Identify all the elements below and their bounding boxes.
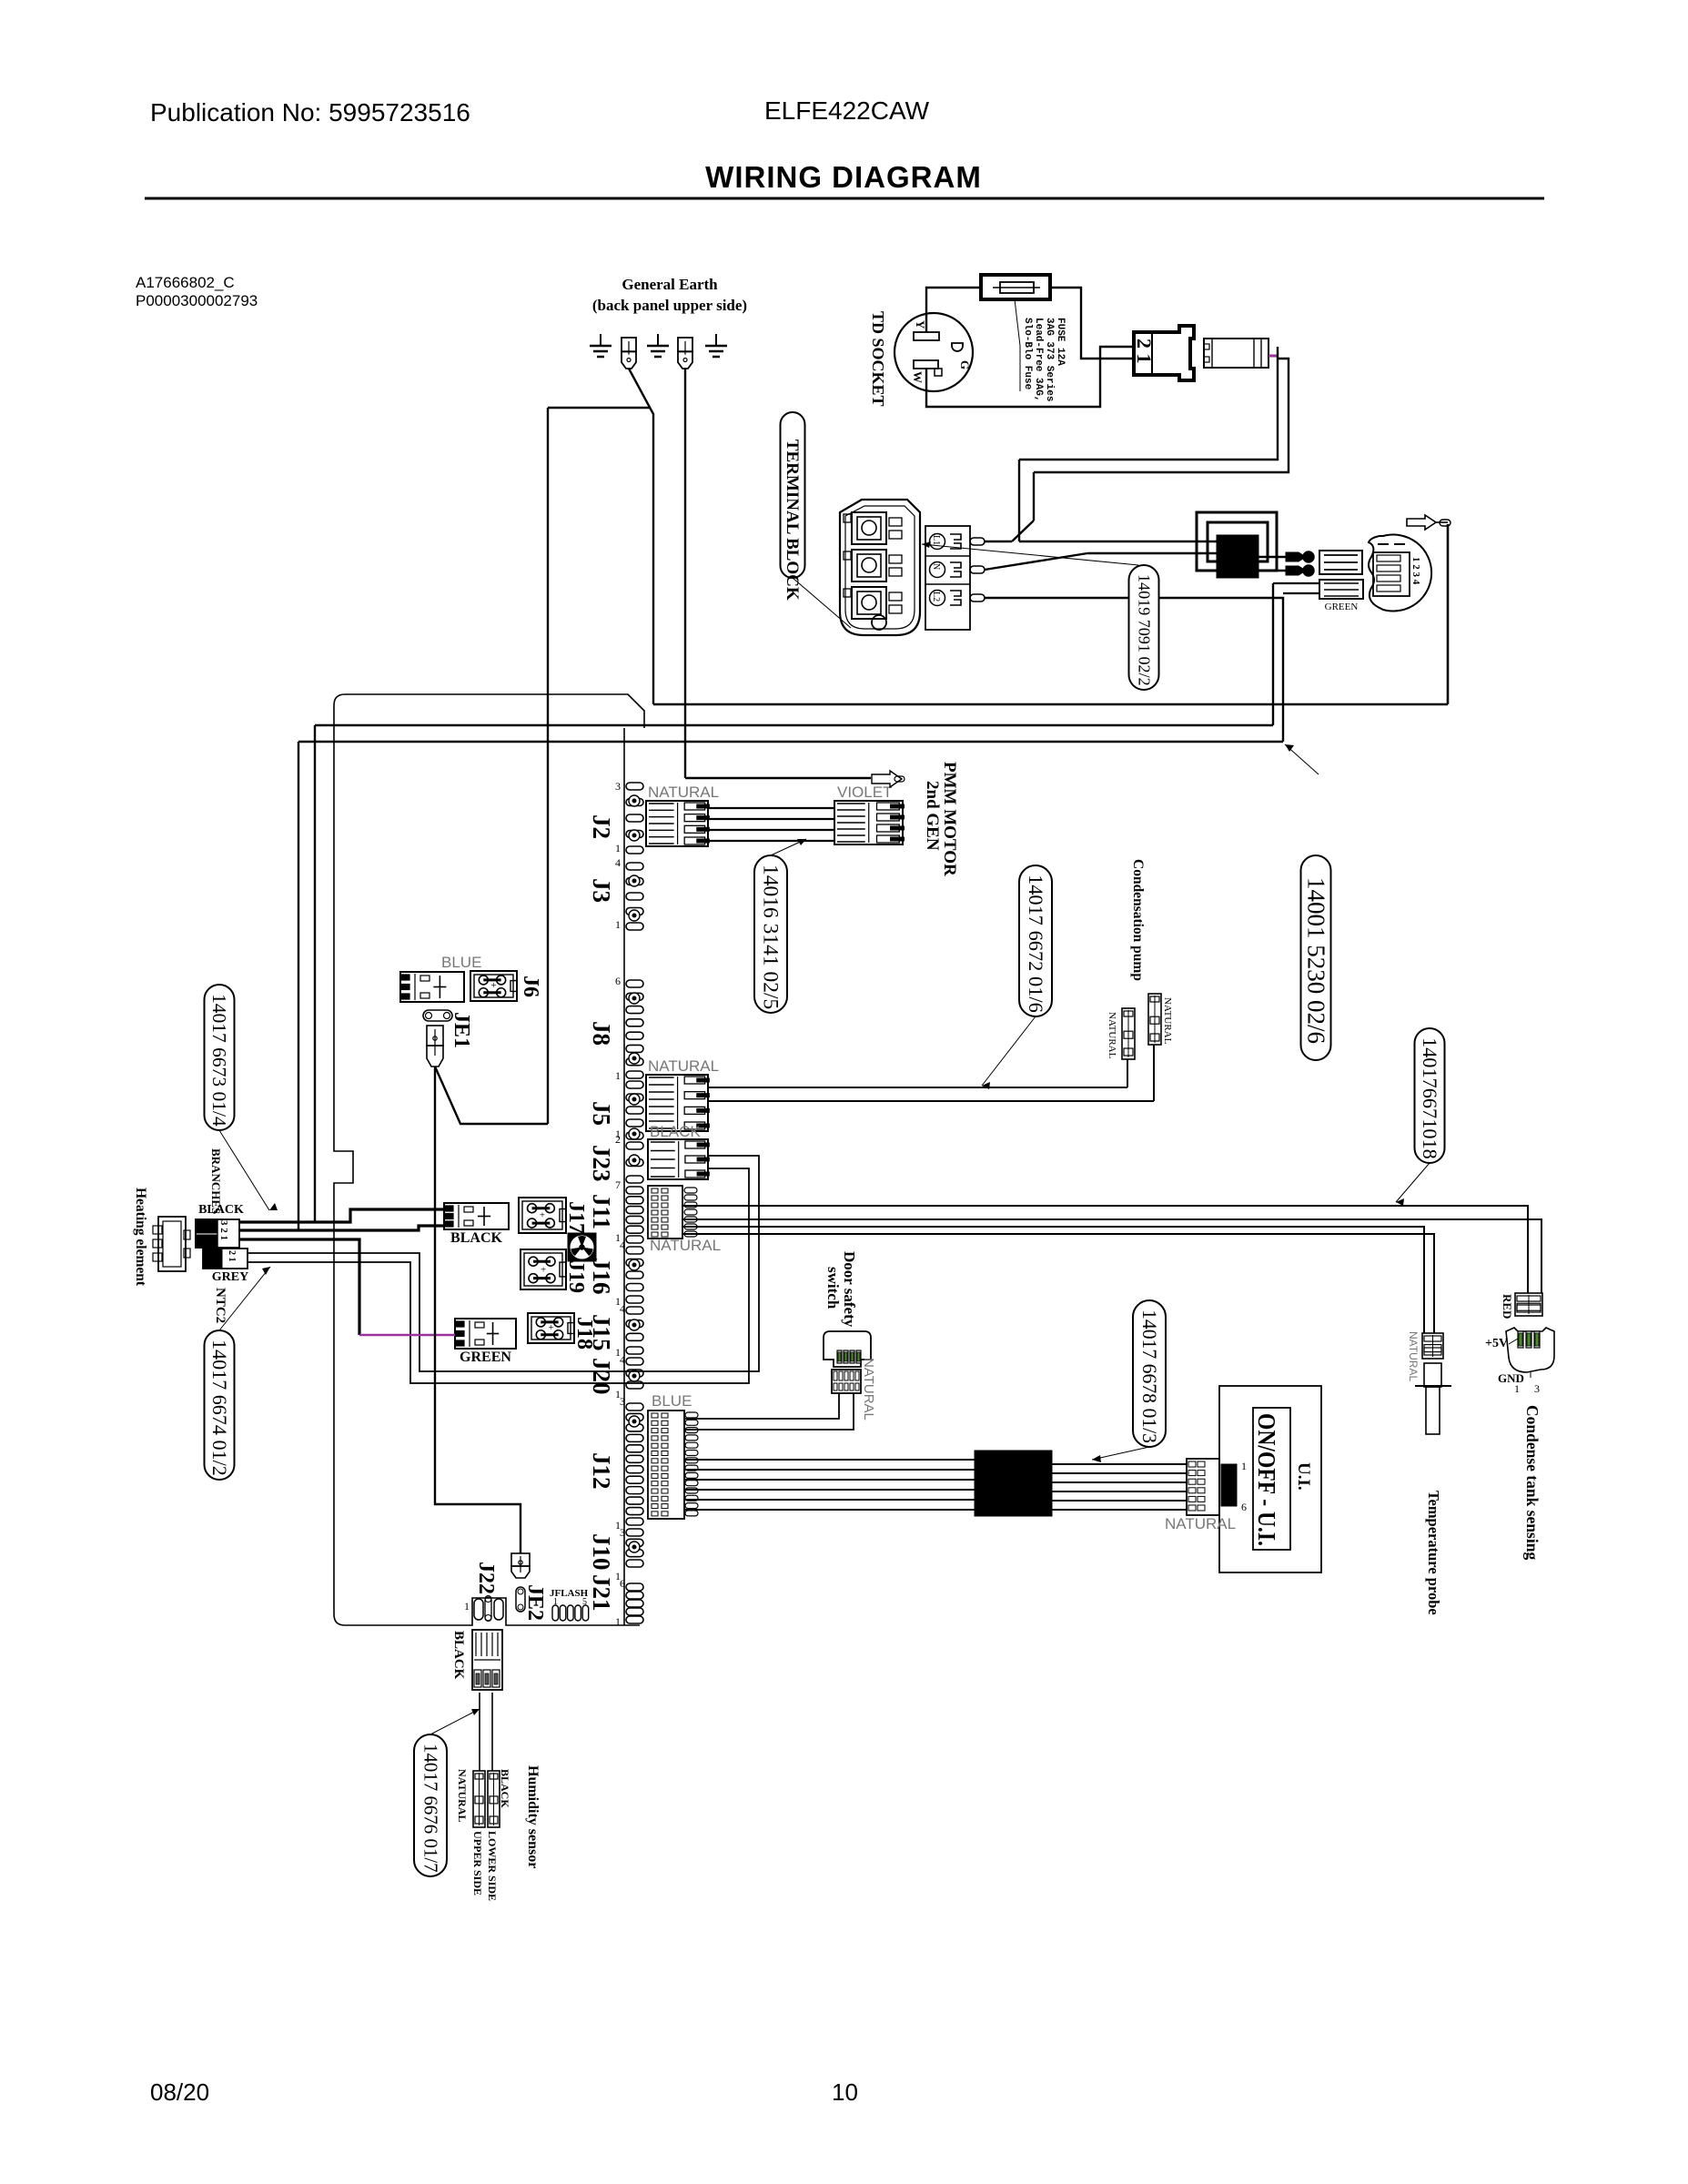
svg-text:BRANCHES: BRANCHES (209, 1148, 223, 1214)
svg-text:1: 1 (464, 1600, 470, 1613)
svg-text:+: + (548, 1322, 553, 1333)
svg-text:J3: J3 (588, 878, 615, 903)
svg-text:J20: J20 (588, 1358, 615, 1395)
svg-text:3AG 373 Series: 3AG 373 Series (1044, 318, 1055, 401)
svg-text:switch: switch (824, 1267, 842, 1309)
svg-text:J19: J19 (564, 1260, 588, 1293)
svg-text:GREY: GREY (212, 1270, 248, 1284)
svg-text:140176671018: 140176671018 (1419, 1037, 1441, 1159)
svg-text:2 1: 2 1 (1133, 339, 1156, 364)
svg-text:TD SOCKET: TD SOCKET (869, 311, 887, 407)
svg-text:6: 6 (615, 975, 621, 987)
svg-text:2: 2 (615, 1133, 621, 1146)
svg-text:GND: GND (1498, 1371, 1524, 1385)
svg-text:A17666802_C: A17666802_C (136, 274, 235, 291)
svg-text:J16: J16 (588, 1258, 615, 1295)
svg-text:G: G (958, 360, 972, 369)
svg-text:ON/OFF - U.I.: ON/OFF - U.I. (1253, 1413, 1280, 1546)
svg-text:BLACK: BLACK (450, 1230, 502, 1246)
svg-text:NATURAL: NATURAL (650, 1237, 721, 1254)
svg-text:NTC2: NTC2 (213, 1288, 227, 1323)
svg-text:4: 4 (620, 1353, 625, 1366)
svg-text:RED: RED (1501, 1294, 1514, 1319)
svg-text:+5V: +5V (1485, 1337, 1508, 1350)
svg-text:TERMINAL BLOCK: TERMINAL BLOCK (783, 440, 802, 601)
svg-text:14017 6673 01/4: 14017 6673 01/4 (208, 994, 230, 1127)
svg-text:N: N (931, 563, 941, 570)
svg-text:14016 3141 02/5: 14016 3141 02/5 (759, 864, 783, 1009)
svg-text:Temperature probe: Temperature probe (1425, 1491, 1442, 1615)
svg-text:1 2 3 4: 1 2 3 4 (1410, 557, 1421, 585)
svg-text:6: 6 (1241, 1501, 1247, 1513)
svg-text:2nd GEN: 2nd GEN (923, 781, 942, 851)
svg-text:J21: J21 (588, 1574, 615, 1612)
svg-text:Condensation pump: Condensation pump (1130, 859, 1146, 981)
svg-text:Condense tank sensing: Condense tank sensing (1523, 1405, 1541, 1560)
svg-text:J23: J23 (588, 1145, 615, 1182)
svg-text:VIOLET: VIOLET (837, 784, 892, 801)
svg-text:7: 7 (615, 1178, 621, 1191)
svg-text:GREEN: GREEN (460, 1350, 511, 1365)
svg-text:2 1: 2 1 (227, 1250, 237, 1262)
svg-text:Slo-Blo Fuse: Slo-Blo Fuse (1022, 318, 1033, 390)
svg-text:Door safety: Door safety (841, 1251, 858, 1328)
svg-text:LOWER SIDE: LOWER SIDE (486, 1831, 499, 1901)
svg-text:J6: J6 (519, 976, 542, 997)
svg-text:J11: J11 (588, 1194, 615, 1229)
svg-text:ELFE422CAW: ELFE422CAW (764, 96, 930, 125)
svg-text:14017 6672 01/6: 14017 6672 01/6 (1025, 875, 1047, 1013)
svg-text:3: 3 (615, 780, 621, 793)
svg-text:NATURAL: NATURAL (1407, 1331, 1420, 1381)
svg-text:NATURAL: NATURAL (1162, 997, 1173, 1045)
svg-text:4: 4 (615, 856, 621, 869)
svg-text:JE2: JE2 (523, 1584, 547, 1621)
svg-text:J5: J5 (588, 1101, 615, 1126)
svg-text:Publication No: 5995723516: Publication No: 5995723516 (150, 98, 470, 126)
svg-text:J17: J17 (564, 1201, 588, 1234)
svg-text:J22: J22 (474, 1562, 498, 1594)
svg-text:Humidity sensor: Humidity sensor (525, 1765, 541, 1868)
svg-text:1: 1 (1241, 1460, 1247, 1472)
svg-text:GREEN: GREEN (1325, 602, 1359, 612)
svg-text:J10: J10 (588, 1533, 615, 1571)
svg-text:BLUE: BLUE (441, 954, 481, 971)
svg-text:Y: Y (914, 320, 927, 329)
svg-text:3: 3 (1534, 1382, 1540, 1395)
svg-text:14017 6676 01/7: 14017 6676 01/7 (419, 1744, 441, 1873)
svg-text:1: 1 (615, 1615, 621, 1628)
svg-text:+: + (540, 1210, 545, 1221)
svg-text:BLUE: BLUE (652, 1392, 692, 1410)
svg-text:3: 3 (620, 1395, 625, 1408)
svg-text:WIRING DIAGRAM: WIRING DIAGRAM (705, 160, 982, 194)
svg-text:14001 5230 02/6: 14001 5230 02/6 (1302, 877, 1329, 1044)
svg-text:14017 6678 01/3: 14017 6678 01/3 (1138, 1309, 1160, 1443)
svg-text:J12: J12 (588, 1452, 615, 1490)
svg-text:J2: J2 (588, 814, 615, 839)
svg-text:NATURAL: NATURAL (648, 784, 719, 801)
svg-text:NATURAL: NATURAL (1107, 1012, 1117, 1059)
svg-text:4: 4 (620, 1302, 625, 1315)
svg-text:Heating element: Heating element (133, 1188, 148, 1287)
svg-text:NATURAL: NATURAL (456, 1769, 469, 1822)
svg-text:BLACK: BLACK (499, 1769, 511, 1808)
svg-text:JE1: JE1 (450, 1012, 473, 1048)
svg-text:UPPER SIDE: UPPER SIDE (471, 1831, 484, 1896)
svg-text:L1: L1 (931, 535, 941, 545)
svg-text:PMM MOTOR: PMM MOTOR (940, 762, 959, 876)
svg-text:3: 3 (620, 1526, 625, 1539)
svg-text:+: + (490, 980, 496, 991)
svg-text:U.I.: U.I. (1294, 1462, 1313, 1491)
svg-text:L2: L2 (931, 591, 941, 602)
svg-text:14017 6674 01/2: 14017 6674 01/2 (208, 1340, 231, 1476)
svg-text:P0000300002793: P0000300002793 (136, 292, 258, 309)
svg-text:(back panel upper side): (back panel upper side) (592, 297, 747, 314)
svg-text:J18: J18 (572, 1317, 596, 1350)
svg-text:BLACK: BLACK (451, 1631, 466, 1680)
svg-text:+: + (541, 1265, 546, 1276)
svg-text:Lead-Free 3AG,: Lead-Free 3AG, (1033, 318, 1044, 401)
svg-text:1: 1 (615, 842, 621, 854)
svg-text:FUSE 12A: FUSE 12A (1055, 318, 1066, 366)
svg-text:4: 4 (620, 1239, 625, 1251)
svg-text:08/20: 08/20 (150, 2078, 209, 2106)
svg-text:BLACK: BLACK (650, 1123, 701, 1140)
svg-text:NATURAL: NATURAL (1165, 1515, 1236, 1532)
svg-text:1: 1 (615, 918, 621, 931)
svg-text:3 2 1: 3 2 1 (218, 1220, 229, 1240)
svg-text:J8: J8 (588, 1021, 615, 1046)
svg-text:NATURAL: NATURAL (648, 1057, 719, 1075)
svg-text:6: 6 (620, 1577, 625, 1590)
svg-text:10: 10 (832, 2078, 858, 2106)
svg-text:1: 1 (615, 1069, 621, 1082)
svg-text:NATURAL: NATURAL (861, 1358, 876, 1421)
svg-text:W: W (911, 371, 925, 383)
svg-text:General Earth: General Earth (622, 276, 718, 293)
svg-text:14019 7091 02/2: 14019 7091 02/2 (1135, 574, 1153, 686)
